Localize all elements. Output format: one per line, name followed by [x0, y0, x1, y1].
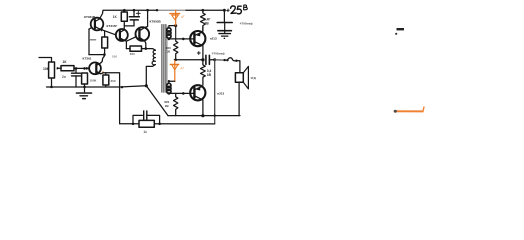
- resistor R6 1K: [121, 12, 127, 21]
- transistor VT2 KT361B upper-left: [91, 18, 104, 31]
- svg-text:1К: 1К: [113, 15, 117, 19]
- node: [182, 38, 185, 41]
- svg-text:10К: 10К: [43, 67, 50, 71]
- node R1-bus: [50, 86, 53, 89]
- resistor R4 300: [103, 75, 109, 85]
- wire ground bus: [47, 86, 147, 87]
- transistor VT1 KT361: [89, 62, 101, 74]
- node rail-RC right: [158, 123, 161, 126]
- ground symbol: [84, 87, 86, 93]
- svg-text:п213: п213: [210, 36, 217, 40]
- wire R1 bottom to bus: [51, 78, 53, 87]
- capacitor C1 2n: [75, 68, 77, 72]
- svg-text:100К: 100К: [90, 79, 97, 83]
- svg-text:1ГД: 1ГД: [250, 76, 255, 80]
- wire sec lower to VT6 base: [169, 92, 190, 94]
- svg-text:4700мкф: 4700мкф: [240, 22, 253, 26]
- svg-text:1к: 1к: [143, 130, 147, 134]
- orange mark VT1 emitter: [102, 71, 104, 73]
- svg-text:1К: 1К: [63, 60, 68, 64]
- diode D1 orange: [170, 10, 180, 25]
- base arrowhead: [86, 67, 89, 70]
- svg-text:КТ903Б: КТ903Б: [150, 20, 162, 24]
- node rail-RC: [132, 123, 135, 126]
- wire VT1 collector to VT2 base: [89, 54, 104, 56]
- node VT1c: [103, 53, 106, 56]
- svg-text:300: 300: [111, 79, 116, 83]
- node rail-C2: [133, 9, 136, 12]
- capacitor C4 bypass loop: [133, 115, 142, 123]
- svg-text:4700мкф: 4700мкф: [212, 52, 225, 56]
- wire VT1 collector up: [101, 55, 105, 63]
- node VT6 collector: [201, 114, 204, 117]
- svg-text:1В: 1В: [207, 73, 212, 77]
- resistor R3 100K: [82, 73, 88, 84]
- wire sec lower top: [169, 80, 175, 82]
- svg-text:КТ361: КТ361: [83, 57, 92, 61]
- transistor VT5 P213 upper output: [190, 31, 205, 46]
- svg-text:КТ361Б: КТ361Б: [84, 15, 96, 19]
- wire VT3 collector: [145, 10, 148, 27]
- wire output return line: [168, 115, 240, 117]
- wire output node: [174, 59, 203, 61]
- resistor R9 zigzag: [174, 41, 178, 60]
- wire R2 to VT1 base: [74, 67, 89, 69]
- transistor VT6 P213 lower output: [190, 85, 205, 100]
- label R5 dash: [91, 39, 96, 41]
- node R9 bottom: [174, 59, 177, 62]
- resistor R2 1K input: [61, 66, 74, 71]
- node primary-bus: [145, 84, 148, 87]
- svg-text:1В: 1В: [204, 21, 209, 25]
- label +25V handwritten: [227, 5, 248, 14]
- node diode junction: [174, 24, 177, 27]
- Tr1 secondary upper: [167, 28, 171, 32]
- wire VT4 emitter node: [124, 40, 127, 49]
- annotation orange underline: [395, 110, 423, 112]
- node: [168, 38, 171, 41]
- annotation dash right: [397, 28, 405, 30]
- wire top +25V rail: [100, 10, 159, 19]
- svg-text:п213: п213: [217, 92, 224, 96]
- annotation dot right: [395, 33, 397, 35]
- resistor R7 0.4 zigzag: [201, 10, 206, 31]
- node base-C1: [75, 67, 78, 70]
- wire VT2 emitter to VT4 base: [99, 29, 116, 35]
- node rail-R7: [202, 9, 205, 12]
- transistor VT3 KT903B: [136, 27, 150, 41]
- speaker B1: [235, 73, 243, 83]
- wire speaker bottom: [238, 82, 240, 115]
- node: [182, 92, 185, 95]
- node rail mid: [156, 9, 158, 11]
- diode D2 orange: [170, 61, 178, 82]
- transformer Tr1 core: [161, 25, 163, 93]
- svg-text:д7: д7: [181, 66, 185, 70]
- node base-R3: [83, 67, 86, 70]
- node after C3: [213, 58, 216, 61]
- svg-text:2В: 2В: [165, 104, 169, 108]
- node output: [201, 58, 204, 61]
- svg-text:2н: 2н: [62, 75, 66, 79]
- wire input: [39, 58, 52, 63]
- resistor R10 zigzag: [174, 93, 178, 115]
- resistor R11 0.4 zigzag lower: [201, 64, 206, 85]
- capacitor C3 4700 output: [205, 55, 207, 64]
- node: [168, 80, 170, 82]
- wire bottom rail: [120, 123, 215, 125]
- node rail end +25V: [223, 9, 226, 12]
- wire diagonal to bottom: [146, 86, 168, 116]
- emitter arrow VT5: [197, 33, 201, 36]
- emitter arrow VT6: [197, 87, 201, 90]
- wire junction down: [175, 26, 177, 41]
- svg-text:100: 100: [112, 54, 117, 58]
- resistor R5: [102, 37, 108, 48]
- node R3-bus: [83, 86, 86, 89]
- svg-text:д7: д7: [181, 14, 185, 18]
- wire C2/R6 to VT4: [124, 25, 134, 27]
- node rail-R2: [123, 9, 126, 12]
- wire C3 to speaker with kink: [215, 59, 228, 61]
- wire VT3 emitter: [144, 41, 146, 49]
- svg-text:КТ315Г: КТ315Г: [107, 24, 118, 28]
- potentiometer R1 10K: [49, 62, 55, 78]
- ground top right: [224, 31, 226, 34]
- node VT3 emitter: [145, 47, 148, 50]
- plus mark C3: [197, 52, 200, 54]
- transistor VT4 KT315G: [116, 29, 128, 41]
- resistor R8 emitter: [130, 46, 142, 51]
- resistor R12 1k: [139, 120, 154, 127]
- wire sec upper to VT5 base: [169, 38, 190, 40]
- node bus crossing: [121, 86, 123, 88]
- wire VT4 collector: [123, 21, 125, 30]
- Tr1 secondary lower: [167, 83, 171, 87]
- node rail-VT3: [146, 9, 149, 12]
- capacitor C2: [133, 10, 135, 16]
- wire VT1 emitter right: [101, 73, 120, 124]
- resistor-capacitor C5 4700 top right: [223, 10, 225, 22]
- svg-text:820: 820: [130, 52, 135, 56]
- Tr1 primary winding: [146, 49, 156, 51]
- wire vertical feedback: [214, 60, 216, 124]
- svg-text:1В: 1В: [166, 50, 170, 54]
